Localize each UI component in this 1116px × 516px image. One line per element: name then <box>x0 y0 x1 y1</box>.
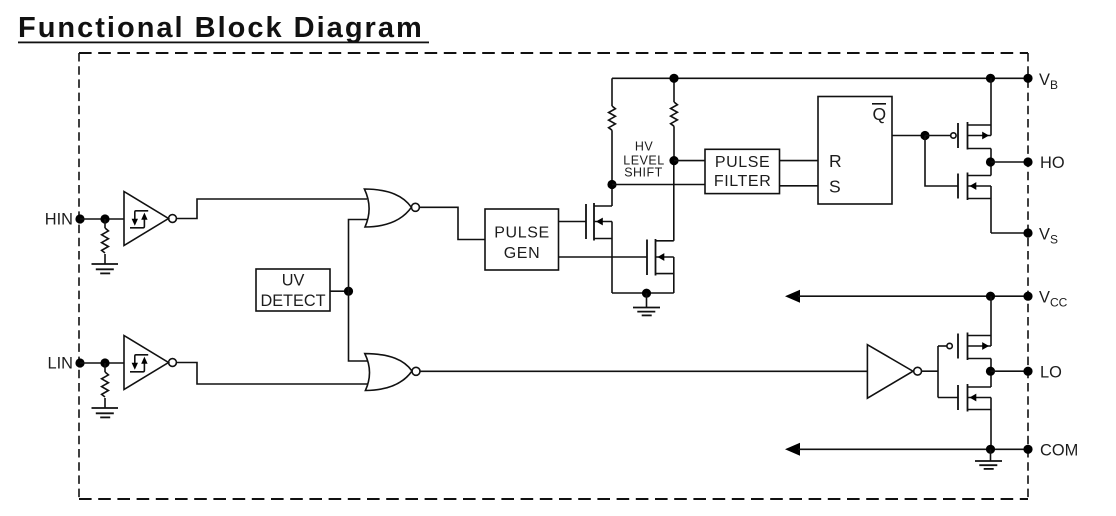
pin dot LIN <box>75 358 84 367</box>
svg-text:HO: HO <box>1040 154 1065 172</box>
svg-text:GEN: GEN <box>504 245 540 262</box>
bubble U1 output <box>169 215 177 223</box>
wire HO node to pin <box>991 161 1029 163</box>
svg-text:VS: VS <box>1039 226 1058 247</box>
transistor M1 (level-shift NMOS, left) <box>586 185 612 294</box>
svg-text:LIN: LIN <box>47 355 73 373</box>
IC boundary dashed border bottom <box>79 498 1028 500</box>
bubble G2 output <box>412 367 420 375</box>
NOR gate G1 <box>364 189 411 227</box>
node COM <box>986 445 995 454</box>
svg-text:SHIFT: SHIFT <box>624 166 663 180</box>
pin dot VS <box>1023 228 1032 237</box>
wire PULSE GEN to M1 gate <box>559 221 587 223</box>
wire latch output <box>892 135 925 137</box>
wire gate stem <box>937 346 939 398</box>
svg-text:FILTER: FILTER <box>714 173 772 190</box>
wire PULSE FILTER to latch R <box>780 160 819 162</box>
wire M1 drain to PULSE FILTER lower input <box>612 184 705 186</box>
PULSE GEN block <box>485 209 559 270</box>
IC boundary dashed border top <box>79 52 1028 54</box>
wire to HO PMOS gate bubble <box>925 135 951 137</box>
pin dot COM <box>1023 445 1032 454</box>
svg-text:S: S <box>829 177 841 197</box>
wire PULSE FILTER to latch S <box>780 185 819 187</box>
UV DETECT block <box>256 269 330 311</box>
node UV junction <box>344 287 353 296</box>
latch U3 (RS flip-flop) <box>818 97 892 205</box>
node LO <box>986 367 995 376</box>
resistor LIN pull-down <box>102 372 109 397</box>
transistor M2 (level-shift NMOS, right) <box>647 161 674 293</box>
transistor Q1 (HO high-side PMOS) <box>958 78 991 162</box>
pin dot HO <box>1023 157 1032 166</box>
wire U1 output to NOR1 top input <box>176 199 367 219</box>
wire M2 drain to PULSE FILTER upper input <box>674 160 705 162</box>
svg-text:LO: LO <box>1040 364 1062 382</box>
inverter U4 (LO driver) <box>867 345 913 399</box>
VCC rail arrow <box>785 290 800 303</box>
COM rail arrow <box>785 443 800 456</box>
svg-text:Q: Q <box>873 104 887 124</box>
svg-text:COM: COM <box>1040 442 1078 460</box>
svg-text:VCC: VCC <box>1039 289 1068 310</box>
IC boundary dashed border right <box>1027 53 1029 499</box>
node LIN junction <box>100 358 109 367</box>
label HV LEVEL SHIFT <box>623 140 664 180</box>
svg-text:VB: VB <box>1039 71 1058 92</box>
node M2 drain / level shift out <box>669 156 678 165</box>
schmitt inverter U1 (HIN) <box>124 192 169 246</box>
wire VS <box>991 232 1028 234</box>
wire UV to NOR1 bottom input <box>349 220 368 292</box>
wire LIN pin to inverter <box>80 362 124 364</box>
wire to LO PMOS gate bubble <box>938 345 947 347</box>
pin dot VB <box>1023 74 1032 83</box>
COM rail wire <box>798 448 1028 450</box>
NOR gate G2 <box>365 354 412 391</box>
svg-text:UV: UV <box>282 272 305 290</box>
wire stem to LO NMOS gate <box>938 397 958 399</box>
bubble HO PMOS gate <box>951 133 956 138</box>
bubble LO PMOS gate <box>947 343 952 348</box>
wire LIN junction to resistor <box>104 363 106 372</box>
wire U4 output to gates <box>922 370 939 372</box>
wire UV to NOR2 top input <box>349 291 369 361</box>
wire latch junction down to NMOS gate <box>925 136 958 187</box>
ground COM <box>975 449 1002 469</box>
transistor Q3 (LO high-side PMOS) <box>958 296 991 371</box>
node VB / R2 <box>669 74 678 83</box>
node ground junction <box>642 289 651 298</box>
svg-text:Functional Block Diagram: Functional Block Diagram <box>18 12 424 44</box>
ground HIN <box>92 264 119 273</box>
title underline <box>18 42 429 44</box>
svg-text:DETECT: DETECT <box>260 292 325 310</box>
wire resistor to ground <box>104 254 106 264</box>
resistor HIN pull-down <box>102 228 109 253</box>
node HO gate drive junction <box>920 131 929 140</box>
pin dot VCC <box>1023 292 1032 301</box>
wire U2 output to NOR2 bottom input <box>176 363 368 385</box>
pin dot LO <box>1023 367 1032 376</box>
svg-text:PULSE: PULSE <box>715 154 770 171</box>
transistor Q4 (LO low-side NMOS) <box>958 371 991 449</box>
resistor R1 (VB to M1 drain) <box>609 78 616 184</box>
VCC rail wire <box>798 295 1028 297</box>
wire PULSE GEN to M2 gate <box>559 256 648 258</box>
node HO <box>986 157 995 166</box>
schmitt hysteresis symbol U1 <box>130 211 148 228</box>
ground level-shift <box>633 293 660 315</box>
IC boundary dashed border left <box>78 53 80 499</box>
svg-text:PULSE: PULSE <box>494 225 549 242</box>
VB rail wire <box>612 77 1028 79</box>
schmitt hysteresis symbol U2 <box>130 355 148 372</box>
node VB / HO PMOS source <box>986 74 995 83</box>
svg-text:HV: HV <box>635 140 654 154</box>
node M1 drain / level shift out <box>607 180 616 189</box>
ground LIN <box>92 408 119 417</box>
transistor Q2 (HO low-side NMOS) <box>958 162 991 233</box>
svg-text:HIN: HIN <box>45 211 73 229</box>
wire G1 output to PULSE GEN <box>419 207 485 239</box>
wire G2 output to LO driver inverter <box>420 370 867 372</box>
node HIN junction <box>100 214 109 223</box>
schmitt inverter U2 (LIN) <box>124 336 169 390</box>
bubble U2 output <box>169 359 177 367</box>
wire resistor to ground <box>104 398 106 408</box>
pin dot HIN <box>75 214 84 223</box>
wire level-shifter sources to ground <box>612 292 674 294</box>
resistor R2 (VB to M2 drain) <box>671 78 678 160</box>
node VCC / LO PMOS source <box>986 292 995 301</box>
wire UV DETECT output <box>330 290 349 292</box>
wire HIN pin to inverter <box>80 218 124 220</box>
PULSE FILTER block <box>705 149 780 193</box>
bubble U4 output <box>914 367 922 375</box>
svg-text:R: R <box>829 151 842 171</box>
bubble G1 output <box>411 203 419 211</box>
wire HIN junction to resistor <box>104 219 106 228</box>
wire LO node to pin <box>991 370 1029 372</box>
